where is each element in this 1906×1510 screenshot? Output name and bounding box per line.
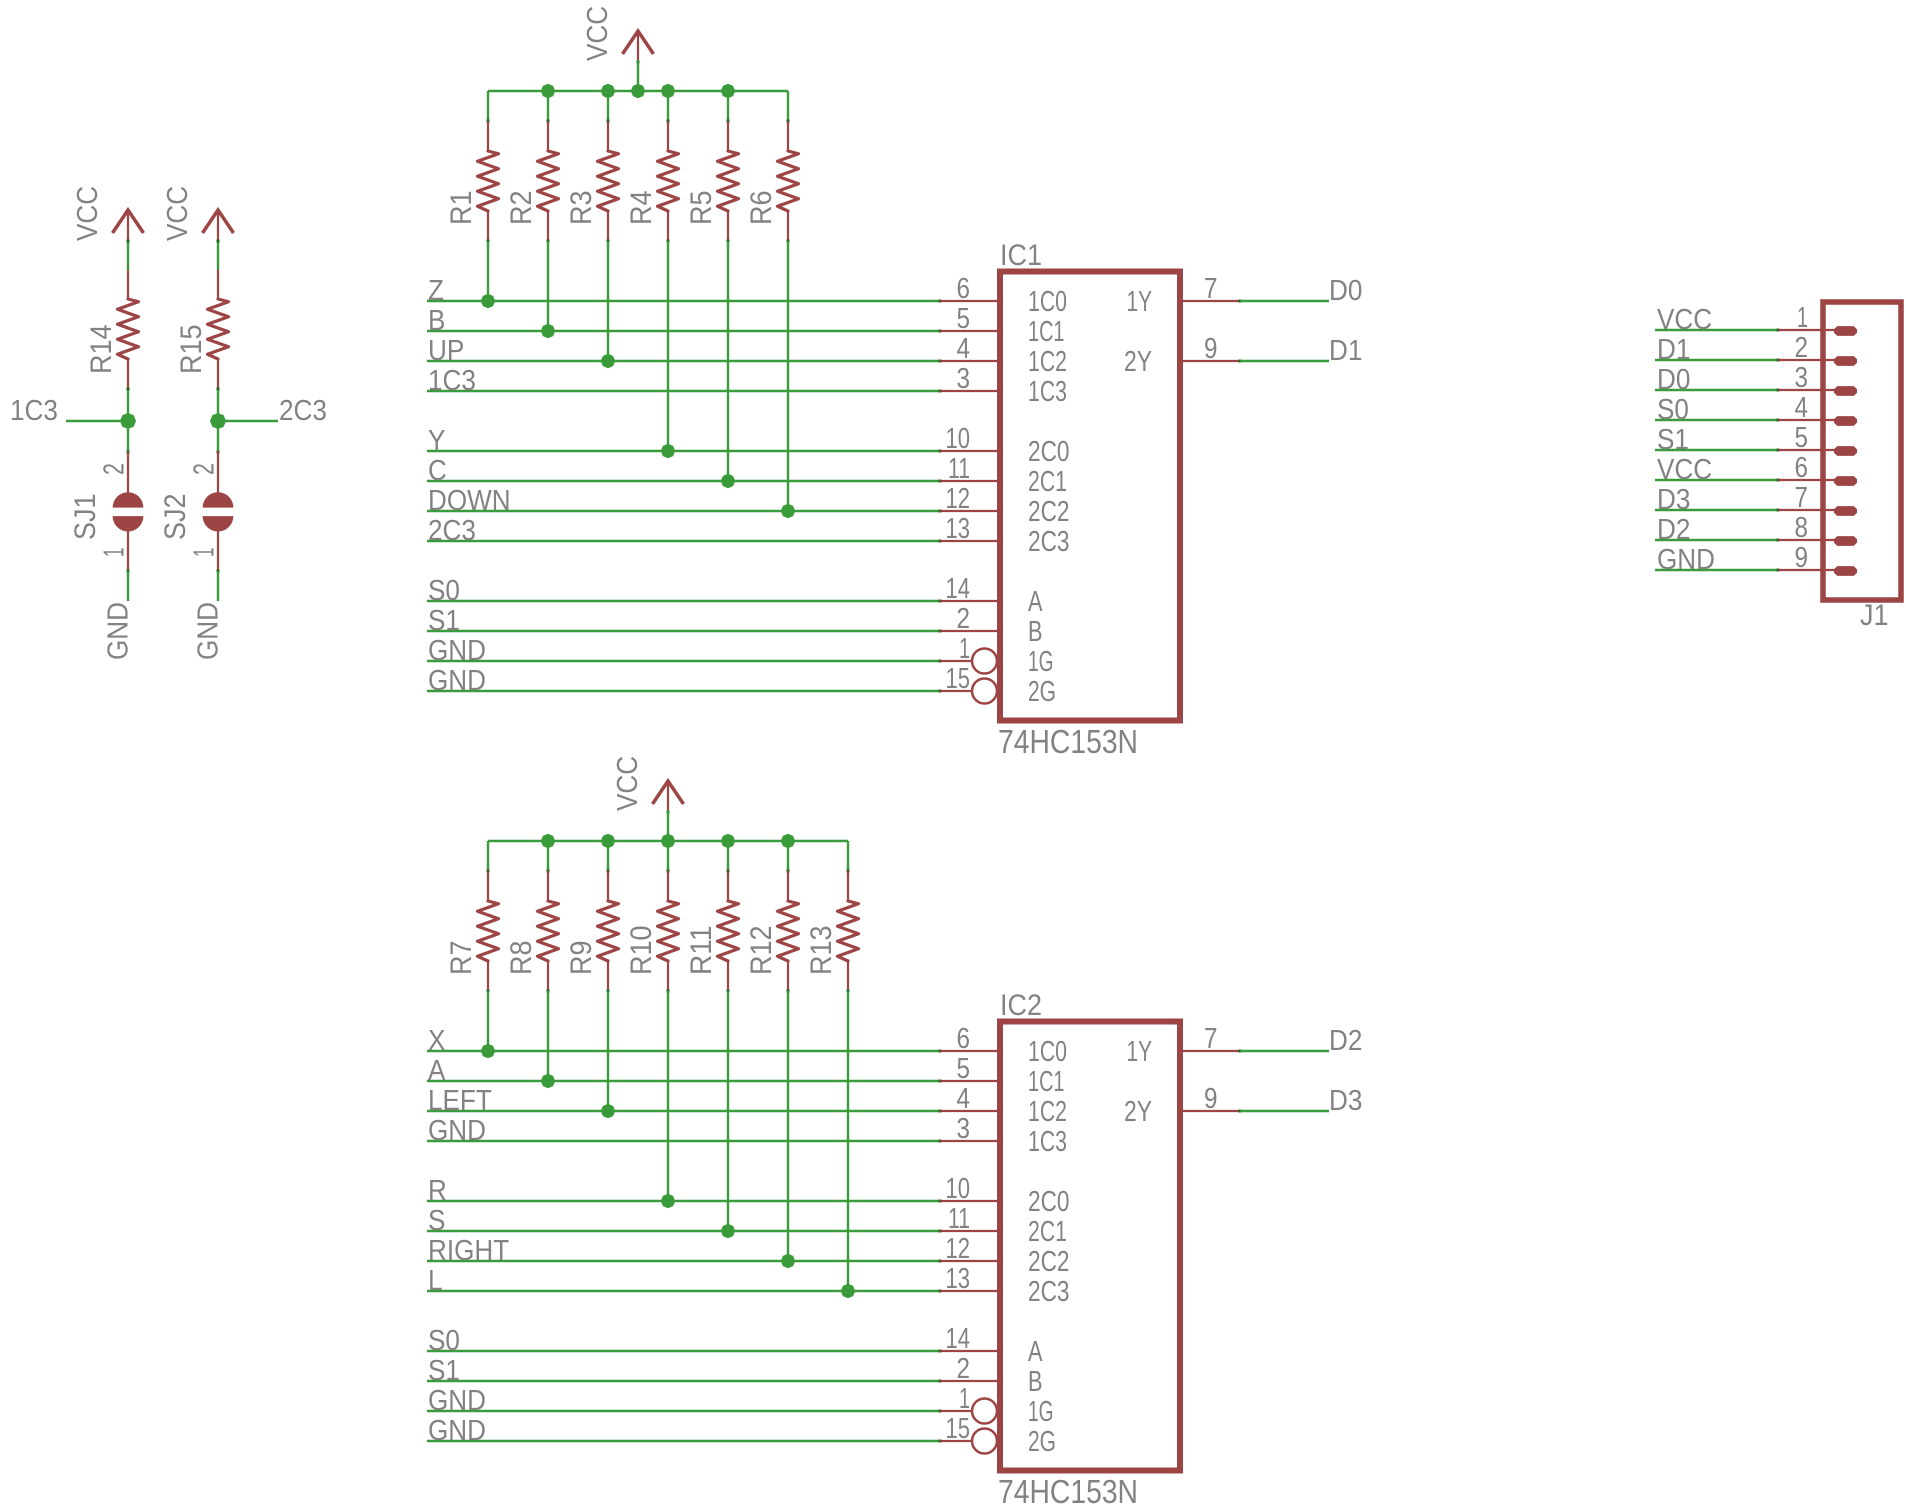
svg-text:1C2: 1C2: [1028, 346, 1067, 378]
svg-text:A: A: [1028, 586, 1043, 618]
svg-text:1Y: 1Y: [1127, 1036, 1153, 1068]
svg-text:VCC: VCC: [1657, 454, 1712, 486]
svg-text:D3: D3: [1657, 484, 1690, 516]
svg-text:GND: GND: [428, 665, 486, 697]
svg-text:VCC: VCC: [582, 6, 614, 61]
svg-text:1: 1: [959, 1383, 970, 1415]
svg-text:R12: R12: [745, 926, 778, 976]
svg-text:1: 1: [1797, 302, 1808, 334]
svg-text:DOWN: DOWN: [428, 485, 511, 517]
svg-text:1C3: 1C3: [1028, 376, 1067, 408]
svg-text:GND: GND: [1657, 544, 1715, 576]
svg-text:D2: D2: [1657, 514, 1690, 546]
svg-text:4: 4: [957, 333, 971, 365]
svg-text:2C0: 2C0: [1028, 1186, 1070, 1218]
svg-text:IC1: IC1: [1000, 239, 1042, 272]
svg-text:13: 13: [946, 513, 971, 545]
svg-text:2: 2: [189, 463, 221, 475]
svg-text:15: 15: [946, 1413, 971, 1445]
svg-text:IC2: IC2: [1000, 989, 1042, 1022]
svg-text:R2: R2: [505, 191, 538, 226]
svg-text:11: 11: [948, 1203, 970, 1235]
svg-text:S1: S1: [1657, 424, 1689, 456]
svg-text:GND: GND: [428, 1415, 486, 1447]
svg-text:S0: S0: [428, 575, 460, 607]
svg-text:2C1: 2C1: [1028, 466, 1067, 498]
svg-text:B: B: [428, 305, 445, 337]
svg-text:D3: D3: [1329, 1085, 1362, 1117]
svg-text:6: 6: [957, 1023, 971, 1055]
svg-text:1: 1: [959, 633, 970, 665]
svg-text:6: 6: [957, 273, 971, 305]
svg-text:GND: GND: [193, 602, 225, 660]
svg-text:D0: D0: [1329, 275, 1362, 307]
svg-text:GND: GND: [103, 602, 135, 660]
svg-text:13: 13: [946, 1263, 971, 1295]
svg-text:R1: R1: [445, 191, 478, 226]
svg-text:7: 7: [1204, 273, 1218, 305]
svg-text:1Y: 1Y: [1127, 286, 1153, 318]
svg-text:1C1: 1C1: [1028, 1066, 1065, 1098]
svg-text:2: 2: [99, 463, 131, 475]
svg-text:2Y: 2Y: [1124, 346, 1152, 378]
svg-text:14: 14: [946, 1323, 971, 1355]
svg-text:1C3: 1C3: [428, 365, 476, 397]
svg-text:VCC: VCC: [612, 756, 644, 811]
svg-text:1C3: 1C3: [1028, 1126, 1067, 1158]
svg-text:R: R: [428, 1175, 447, 1207]
svg-text:VCC: VCC: [72, 186, 104, 241]
svg-text:C: C: [428, 455, 447, 487]
svg-text:A: A: [428, 1055, 446, 1087]
svg-text:A: A: [1028, 1336, 1043, 1368]
svg-text:R6: R6: [745, 191, 778, 226]
svg-text:R9: R9: [565, 941, 598, 976]
svg-text:1G: 1G: [1028, 646, 1054, 678]
svg-text:2Y: 2Y: [1124, 1096, 1152, 1128]
svg-text:7: 7: [1204, 1023, 1218, 1055]
svg-text:S0: S0: [1657, 394, 1689, 426]
svg-text:12: 12: [946, 483, 971, 515]
svg-text:VCC: VCC: [1657, 304, 1712, 336]
svg-text:1: 1: [189, 548, 221, 558]
svg-text:B: B: [1028, 616, 1043, 648]
svg-text:11: 11: [948, 453, 970, 485]
svg-text:9: 9: [1204, 1083, 1218, 1115]
svg-text:R13: R13: [805, 926, 838, 976]
svg-text:2: 2: [957, 1353, 971, 1385]
svg-text:1C2: 1C2: [1028, 1096, 1067, 1128]
svg-text:2C3: 2C3: [428, 515, 476, 547]
svg-text:R8: R8: [505, 941, 538, 976]
svg-text:74HC153N: 74HC153N: [998, 1473, 1138, 1510]
svg-text:LEFT: LEFT: [428, 1085, 492, 1117]
svg-text:R3: R3: [565, 191, 598, 226]
svg-text:7: 7: [1795, 482, 1809, 514]
svg-text:UP: UP: [428, 335, 464, 367]
svg-text:10: 10: [946, 423, 971, 455]
svg-text:L: L: [428, 1265, 443, 1297]
svg-text:GND: GND: [428, 1385, 486, 1417]
svg-text:S1: S1: [428, 1355, 460, 1387]
svg-text:2C3: 2C3: [279, 395, 327, 427]
svg-text:2: 2: [957, 603, 971, 635]
svg-text:RIGHT: RIGHT: [428, 1235, 509, 1267]
svg-text:5: 5: [1795, 422, 1809, 454]
svg-text:1C0: 1C0: [1028, 1036, 1067, 1068]
svg-text:4: 4: [1795, 392, 1809, 424]
svg-text:R14: R14: [85, 325, 118, 375]
svg-text:S0: S0: [428, 1325, 460, 1357]
svg-text:R11: R11: [685, 926, 718, 976]
svg-text:R7: R7: [445, 941, 478, 976]
svg-text:GND: GND: [428, 1115, 486, 1147]
svg-text:10: 10: [946, 1173, 971, 1205]
svg-text:R4: R4: [625, 191, 658, 226]
svg-text:2G: 2G: [1028, 676, 1056, 708]
svg-text:2C0: 2C0: [1028, 436, 1070, 468]
svg-text:2C3: 2C3: [1028, 1276, 1070, 1308]
svg-text:5: 5: [957, 303, 971, 335]
svg-text:12: 12: [946, 1233, 971, 1265]
svg-text:5: 5: [957, 1053, 971, 1085]
svg-text:Y: Y: [428, 425, 445, 457]
svg-text:Z: Z: [428, 275, 444, 307]
svg-text:X: X: [428, 1025, 445, 1057]
svg-text:9: 9: [1795, 542, 1809, 574]
svg-text:1G: 1G: [1028, 1396, 1054, 1428]
svg-text:15: 15: [946, 663, 971, 695]
svg-text:SJ1: SJ1: [69, 494, 102, 541]
svg-text:8: 8: [1795, 512, 1809, 544]
svg-text:9: 9: [1204, 333, 1218, 365]
svg-text:VCC: VCC: [162, 186, 194, 241]
svg-text:D0: D0: [1657, 364, 1690, 396]
svg-text:14: 14: [946, 573, 971, 605]
svg-text:1: 1: [99, 548, 131, 558]
svg-text:R10: R10: [625, 926, 658, 976]
svg-text:D1: D1: [1329, 335, 1362, 367]
svg-text:4: 4: [957, 1083, 971, 1115]
svg-text:1C1: 1C1: [1028, 316, 1065, 348]
svg-text:R5: R5: [685, 191, 718, 226]
svg-text:1C0: 1C0: [1028, 286, 1067, 318]
svg-text:D2: D2: [1329, 1025, 1362, 1057]
svg-text:1C3: 1C3: [10, 395, 58, 427]
svg-text:2C2: 2C2: [1028, 1246, 1070, 1278]
svg-text:2G: 2G: [1028, 1426, 1056, 1458]
svg-text:3: 3: [1795, 362, 1809, 394]
svg-text:GND: GND: [428, 635, 486, 667]
svg-text:D1: D1: [1657, 334, 1690, 366]
svg-text:2C2: 2C2: [1028, 496, 1070, 528]
svg-text:3: 3: [957, 363, 971, 395]
svg-text:J1: J1: [1860, 599, 1889, 632]
svg-text:74HC153N: 74HC153N: [998, 723, 1138, 760]
svg-text:S: S: [428, 1205, 445, 1237]
svg-text:6: 6: [1795, 452, 1809, 484]
svg-text:S1: S1: [428, 605, 460, 637]
svg-text:R15: R15: [175, 325, 208, 375]
svg-text:3: 3: [957, 1113, 971, 1145]
svg-text:SJ2: SJ2: [159, 494, 192, 541]
svg-text:2C3: 2C3: [1028, 526, 1070, 558]
svg-text:B: B: [1028, 1366, 1043, 1398]
svg-text:2: 2: [1795, 332, 1809, 364]
svg-text:2C1: 2C1: [1028, 1216, 1067, 1248]
